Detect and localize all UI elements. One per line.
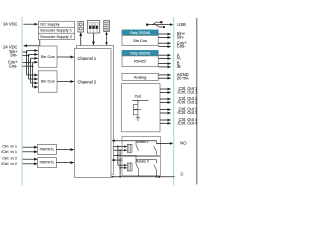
svg-text:Sin Cos: Sin Cos (41, 79, 55, 84)
wire to LED symbol (arrow up) (80, 33, 82, 46)
wire 20 mA output (158, 77, 170, 79)
wire relay2 contact feed (114, 154, 137, 156)
wire /Ctrl In 2 (23, 163, 38, 165)
wire relay1 coil feed 1 (114, 146, 127, 148)
wire relay2 coil feed 2 (120, 167, 126, 169)
wire relay1 coil feed 2 (114, 149, 127, 151)
wire relay vertical bus B (119, 150, 121, 177)
svg-text:Analog: Analog (134, 74, 146, 79)
block PNP/HTL input 2 (38, 158, 57, 168)
svg-text:PNP/HTL: PNP/HTL (40, 161, 55, 165)
LED indicator symbol (78, 22, 84, 33)
svg-text:USB: USB (177, 22, 186, 27)
svg-text:Sin-: Sin- (177, 34, 185, 39)
svg-text:Sin Cos: Sin Cos (41, 54, 55, 59)
wire sin cos 1 to channel 1 (57, 56, 74, 58)
block RS422 output (122, 56, 158, 67)
block Analog output (122, 73, 158, 80)
svg-text:Cos-: Cos- (9, 63, 18, 68)
wire Ctrl. Out 3 output (160, 109, 171, 111)
wire /Ctrl. Out 4 output (160, 122, 171, 124)
block PNP/HTL input 1 (38, 144, 57, 154)
relay 2 NC contact corner (136, 159, 157, 161)
svg-text:Only DS240: Only DS240 (130, 51, 150, 55)
block Encoder Supply 1 (38, 27, 74, 33)
svg-text:Only DS240: Only DS240 (130, 31, 150, 35)
wire relay2 coil feed 1 (118, 164, 127, 166)
svg-text:/Ctrl. In 1: /Ctrl. In 1 (1, 149, 17, 154)
wire AGND output (158, 74, 170, 76)
wire encoder supply 24VDC output (39, 40, 41, 46)
svg-text:Channel 1: Channel 1 (78, 56, 97, 61)
svg-text:20 mA: 20 mA (177, 75, 189, 80)
svg-text:PNP/HTL: PNP/HTL (40, 148, 55, 152)
wire Ctrl. Out 1 output (160, 88, 171, 90)
wire sin/cos input 3 (23, 61, 31, 63)
wire PNP/HTL 2 to processor (56, 162, 73, 164)
svg-text:Sin Cos: Sin Cos (133, 38, 147, 43)
svg-text:Ctrl. In 1: Ctrl. In 1 (2, 144, 17, 149)
svg-text:Channel 2: Channel 2 (78, 79, 97, 84)
wire relay2 contact to C bus (138, 169, 140, 177)
svg-text:24 VDC: 24 VDC (3, 21, 17, 26)
block Sin Cos interface 1 (38, 46, 57, 67)
wire PNP/HTL 1 to processor (56, 149, 73, 151)
wire Ctrl. Out 4 output (160, 119, 171, 121)
wire sin/cos input 1 (23, 51, 27, 53)
programming connector symbol (104, 20, 110, 31)
relay 1 coil (127, 144, 132, 152)
wire Sin+ output (158, 33, 170, 35)
svg-text:RS422: RS422 (134, 59, 147, 64)
svg-text:/B: /B (177, 64, 181, 69)
wire Cos+ output (158, 42, 170, 44)
svg-text:Encoder Supply 1: Encoder Supply 1 (40, 28, 72, 33)
wire A output (158, 54, 170, 56)
svg-text:Cos-: Cos- (177, 44, 186, 49)
wire 24VDC input arrow (24, 23, 38, 25)
right boundary guide line (173, 17, 175, 186)
wire /Ctrl. Out 3 output (160, 112, 171, 114)
wire Ctrl In 2 (23, 158, 38, 160)
svg-text:/Ctrl. In 2: /Ctrl. In 2 (1, 161, 17, 166)
relay 1 contact (135, 141, 137, 146)
svg-text:Relais 2: Relais 2 (136, 159, 149, 163)
svg-text:/Ctrl. Out 3: /Ctrl. Out 3 (178, 110, 199, 115)
svg-text:C: C (181, 172, 184, 177)
wire /B output (158, 66, 170, 68)
block Out driver (122, 84, 161, 132)
block Only DS240 header 1 (122, 30, 158, 36)
wire relay2 feedback into processor (112, 159, 122, 161)
wire Ctrl In 1 (23, 146, 38, 148)
svg-text:Sin-: Sin- (10, 53, 18, 58)
ground symbol (136, 117, 140, 119)
block Only DS240 header 2 (122, 50, 158, 56)
wire relay1 contact feed with feedback arrow (112, 140, 157, 142)
transistor output stage (132, 100, 149, 102)
wire NO output (157, 142, 171, 144)
block main processor back rectangle (77, 46, 114, 175)
wire /Ctrl In 1 (23, 151, 38, 153)
wire sin/cos input 2 (23, 55, 29, 57)
block DC Supply (38, 21, 74, 27)
relay 2 box (122, 157, 161, 176)
right terminal strip line (196, 18, 198, 185)
svg-text:/Ctrl. Out 2: /Ctrl. Out 2 (178, 99, 199, 104)
svg-text:Encoder Supply 2: Encoder Supply 2 (40, 34, 72, 39)
block Encoder Supply 2 (38, 33, 74, 39)
USB symbol (146, 23, 149, 26)
relay 2 contact (135, 155, 137, 164)
block Sin Cos output (122, 35, 158, 45)
relay 1 box (122, 137, 161, 156)
DIP switch symbol (87, 21, 99, 34)
wire /Ctrl. Out 1 output (160, 91, 171, 93)
wire connector to processor (double arrow) (106, 34, 108, 44)
wire Ctrl. Out 2 output (160, 98, 171, 100)
relay 1 NO contact corner (156, 141, 158, 144)
svg-text:/Ctrl. Out 1: /Ctrl. Out 1 (178, 89, 199, 94)
wire /Ctrl. Out 2 output (160, 101, 171, 103)
svg-text:DC Supply: DC Supply (40, 22, 59, 27)
svg-text:/Ctrl. Out 4: /Ctrl. Out 4 (178, 120, 199, 125)
block main processor front rectangle (75, 49, 112, 178)
wire Sin- output (158, 36, 170, 38)
svg-text:Relais 1: Relais 1 (136, 140, 149, 144)
svg-text:Ctrl. In 2: Ctrl. In 2 (2, 156, 17, 161)
svg-text:NO: NO (180, 140, 186, 145)
wire Cos- output (158, 46, 170, 48)
wire sin/cos input 4 (23, 65, 33, 67)
wire relay vertical bus A (117, 147, 119, 166)
wire B output (158, 63, 170, 65)
wire /A output (158, 58, 170, 60)
wire common C bus (arrow pointing left) (111, 176, 174, 178)
svg-text:Out: Out (135, 93, 142, 98)
relay 2 coil (127, 163, 132, 171)
wire sin cos 2 to channel 2 (57, 81, 74, 83)
left boundary guide line (21, 17, 23, 186)
block Sin Cos interface 2 (38, 71, 57, 93)
wire DIP switch to processor (arrow down) (93, 33, 95, 45)
